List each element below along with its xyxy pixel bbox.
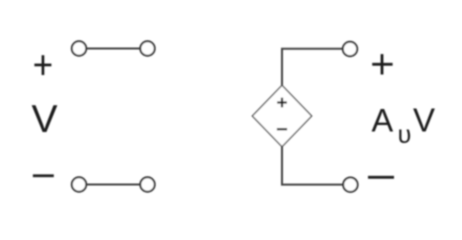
terminal: left port top-left: [72, 41, 86, 55]
terminal: output bottom: [343, 178, 357, 192]
node - label (left port, negative): [33, 174, 54, 177]
node + label (output, positive): [372, 54, 392, 74]
svg-text:υ: υ: [398, 121, 412, 149]
svg-text:A: A: [372, 102, 394, 138]
node + label (left port, positive): [34, 55, 51, 75]
terminal: left port bottom-left: [72, 177, 86, 191]
svg-text:V: V: [31, 98, 57, 141]
node - label (output, negative): [368, 176, 394, 179]
dependent source diamond (VCVS): [252, 85, 311, 146]
terminal: left port bottom-right: [140, 177, 154, 191]
terminal: left port top-right: [140, 41, 154, 55]
wire: left port top: [87, 48, 140, 50]
source internal - polarity: [277, 128, 287, 130]
wire: dependent source top to output terminal: [282, 49, 342, 86]
wire: dependent source bottom to output terminal: [282, 146, 343, 185]
source internal + polarity: [277, 98, 287, 108]
wire: left port bottom: [87, 184, 140, 186]
terminal: output top: [343, 42, 357, 56]
svg-text:V: V: [413, 101, 435, 138]
